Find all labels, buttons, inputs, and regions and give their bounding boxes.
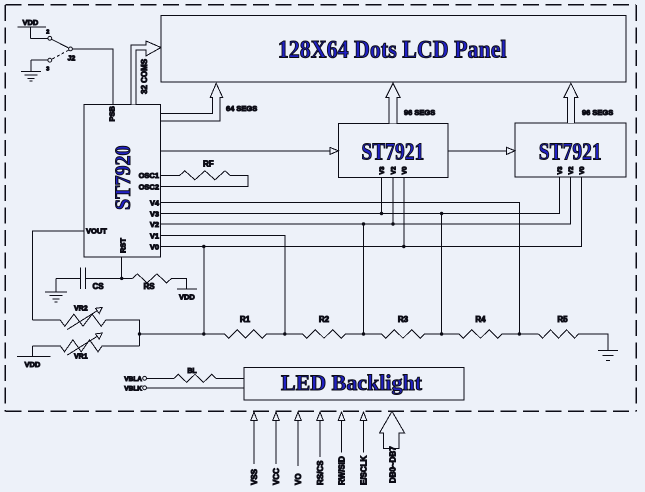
resistor ladder R1-R5 <box>204 315 608 351</box>
svg-text:LED Backlight: LED Backlight <box>281 370 423 395</box>
svg-text:VR2: VR2 <box>74 306 88 313</box>
terminal VBLA <box>124 376 174 383</box>
wire VOUT <box>32 231 84 320</box>
svg-text:VSS: VSS <box>250 468 259 485</box>
chip ST7921 #1 <box>338 124 448 178</box>
wire net V1 <box>161 236 285 335</box>
svg-text:ST7921: ST7921 <box>361 140 424 166</box>
signal arrow VCC <box>272 412 281 485</box>
op chip U1 ST7920 <box>84 105 161 257</box>
svg-text:V2: V2 <box>391 166 398 174</box>
resistor BL <box>174 368 244 383</box>
svg-text:RW/SID: RW/SID <box>338 456 347 485</box>
potentiometer VR2 <box>32 306 105 330</box>
ground (switch J2) <box>21 71 41 81</box>
resistor R1 <box>225 315 267 338</box>
capacitor CS <box>56 268 122 292</box>
bus arrow 96 SEGS #1 <box>386 83 400 123</box>
svg-text:RS: RS <box>144 282 156 291</box>
svg-text:V0: V0 <box>150 243 159 252</box>
svg-text:R3: R3 <box>398 315 409 324</box>
svg-text:2: 2 <box>46 30 49 36</box>
svg-text:BL: BL <box>187 368 197 375</box>
svg-text:V1: V1 <box>150 232 159 241</box>
signal arrow VO <box>294 412 303 485</box>
svg-text:VBLA: VBLA <box>124 376 142 383</box>
svg-text:OSC1: OSC1 <box>139 171 159 180</box>
resistor R2 <box>303 315 346 338</box>
wire ST7920 to first ST7921 <box>161 150 331 152</box>
wire net V3 <box>161 177 560 334</box>
svg-text:J2: J2 <box>68 56 76 63</box>
svg-text:V3: V3 <box>557 166 564 174</box>
svg-text:VBLK: VBLK <box>124 386 142 393</box>
svg-text:V0: V0 <box>579 166 586 174</box>
ground (R5) <box>598 350 618 360</box>
wire ST7921 #1 to ST7921 #2 <box>448 150 507 152</box>
svg-text:V2: V2 <box>150 220 159 229</box>
svg-text:VDD: VDD <box>24 360 40 369</box>
signal arrow RW/SID <box>338 412 347 485</box>
svg-text:DB0~DB7: DB0~DB7 <box>388 446 397 483</box>
wire J2 to PSB pin <box>72 49 113 105</box>
resistor RF (OSC1-OSC2) <box>161 160 249 187</box>
svg-text:96 SEGS: 96 SEGS <box>404 108 435 117</box>
switch J2 <box>30 30 75 73</box>
bus arrow 32 COMS <box>131 41 161 105</box>
svg-text:RST: RST <box>118 238 127 253</box>
svg-text:96 SEGS: 96 SEGS <box>582 108 613 117</box>
svg-text:RF: RF <box>203 160 214 169</box>
svg-text:OSC2: OSC2 <box>139 183 159 192</box>
resistor R3 <box>382 315 425 338</box>
svg-text:VDD: VDD <box>22 18 38 27</box>
svg-text:V4: V4 <box>150 199 160 208</box>
resistor R4 <box>459 315 502 338</box>
wire RST to node <box>120 257 123 280</box>
power flag VDD (RS) <box>177 289 197 302</box>
svg-text:32 COMS: 32 COMS <box>140 58 149 94</box>
bus arrow 96 SEGS #2 <box>564 83 578 123</box>
svg-text:E/SCLK: E/SCLK <box>360 455 369 485</box>
svg-text:PSB: PSB <box>107 105 116 121</box>
svg-text:RS/CS: RS/CS <box>316 460 325 485</box>
wire net V4 <box>161 203 520 335</box>
wire net V0 <box>161 177 582 334</box>
potentiometer VR1 <box>32 333 102 360</box>
svg-text:R2: R2 <box>319 315 330 324</box>
svg-text:V2: V2 <box>568 166 575 174</box>
svg-text:128X64 Dots LCD Panel: 128X64 Dots LCD Panel <box>278 37 507 64</box>
svg-text:VO: VO <box>294 473 303 485</box>
power flag VDD (top left) <box>17 18 46 38</box>
svg-text:V0: V0 <box>401 166 408 174</box>
LED backlight box <box>244 367 464 400</box>
svg-text:64 SEGS: 64 SEGS <box>226 104 257 113</box>
svg-text:3: 3 <box>46 67 49 73</box>
svg-text:VDD: VDD <box>179 292 195 301</box>
resistor R5 <box>539 315 579 338</box>
power flag VDD (VR1) <box>17 346 50 369</box>
ground (CS) <box>45 292 67 302</box>
svg-text:R4: R4 <box>475 315 486 324</box>
svg-text:CS: CS <box>93 282 105 291</box>
signal arrow VSS <box>250 412 259 485</box>
wire net V2 <box>161 177 571 334</box>
bus arrow DB0~DB7 <box>380 411 405 483</box>
svg-text:ST7921: ST7921 <box>539 140 602 166</box>
svg-text:V3: V3 <box>379 166 386 174</box>
svg-text:VOUT: VOUT <box>86 226 107 235</box>
resistor RS <box>122 274 187 291</box>
svg-text:V3: V3 <box>150 210 159 219</box>
terminal VBLK <box>124 386 244 393</box>
LCD panel box <box>161 16 626 83</box>
bus arrow 64 SEGS <box>161 83 223 121</box>
chip ST7921 #2 <box>515 123 626 177</box>
svg-text:R5: R5 <box>557 315 568 324</box>
svg-text:VCC: VCC <box>272 468 281 485</box>
signal arrow RS/CS <box>316 412 325 485</box>
wire VR wiper output <box>102 320 205 346</box>
svg-text:VR1: VR1 <box>74 353 88 360</box>
signal arrow E/SCLK <box>360 412 369 485</box>
svg-text:R1: R1 <box>240 315 251 324</box>
svg-text:ST7920: ST7920 <box>110 146 135 211</box>
